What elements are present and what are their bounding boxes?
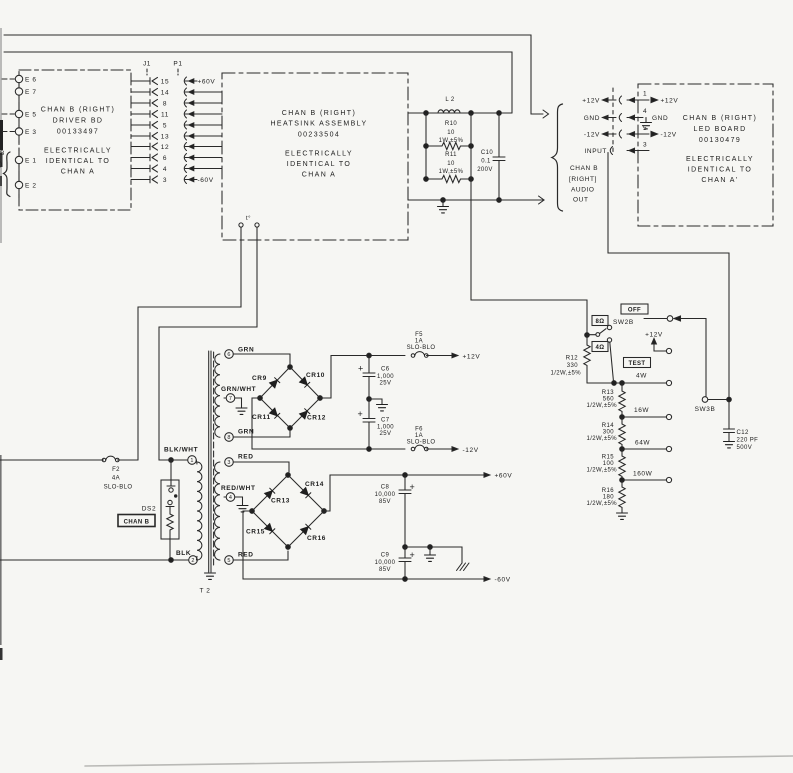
svg-text:14: 14	[161, 89, 169, 96]
svg-text:t°: t°	[246, 216, 251, 222]
svg-text:CR10: CR10	[306, 372, 325, 379]
svg-text:E 6: E 6	[25, 77, 37, 84]
svg-text:L 2: L 2	[445, 97, 455, 103]
svg-text:1/2W,±5%: 1/2W,±5%	[586, 501, 617, 507]
svg-text:4Ω: 4Ω	[596, 345, 605, 351]
connector P1 contact pin 13	[184, 132, 186, 140]
fuse F6	[411, 445, 428, 451]
diode CR10	[300, 377, 310, 387]
label TEST	[624, 358, 651, 368]
svg-text:): )	[0, 161, 3, 168]
terminal E7	[15, 88, 22, 95]
page bottom edge line	[85, 756, 793, 766]
svg-text:RED: RED	[238, 454, 254, 461]
svg-text:ELECTRICALLY: ELECTRICALLY	[686, 156, 754, 163]
wire P1 pin 6 to heatsink	[185, 157, 222, 159]
svg-text:1/2W,±5%: 1/2W,±5%	[586, 468, 617, 474]
wire RED 3 to bridge2 top	[233, 462, 289, 472]
wire bridge2 minus to -60V rail	[243, 511, 484, 579]
switch OFF contact	[644, 318, 667, 320]
svg-text:00133497: 00133497	[57, 129, 99, 136]
svg-text:3: 3	[163, 177, 167, 184]
ground C12	[724, 442, 735, 448]
svg-text:DS2: DS2	[142, 506, 156, 513]
svg-text:F5: F5	[415, 332, 423, 338]
svg-text:330: 330	[567, 363, 578, 369]
svg-text:T 2: T 2	[199, 588, 210, 595]
wire 16W row	[622, 416, 666, 418]
svg-text:560: 560	[603, 397, 614, 403]
capacitor C8	[403, 473, 408, 478]
svg-text:13: 13	[161, 133, 169, 140]
svg-text:85V: 85V	[379, 499, 391, 505]
terminal 5 RED	[225, 556, 234, 565]
ground T2 core	[205, 573, 216, 579]
svg-text:15: 15	[161, 78, 169, 85]
wire J1 pin 6 lead	[131, 157, 150, 159]
connector P1 contact pin 14	[184, 88, 186, 96]
terminal E2	[15, 181, 22, 188]
svg-text:4A: 4A	[112, 476, 120, 482]
wire 4W row	[587, 382, 666, 384]
driver board CHAN B dashed box	[19, 70, 131, 210]
svg-text:IDENTICAL TO: IDENTICAL TO	[46, 158, 111, 165]
wire J1 pin 8 lead	[131, 102, 150, 104]
svg-text:1/2W,±5%: 1/2W,±5%	[586, 436, 617, 442]
brace audio out	[552, 104, 563, 211]
ground C6 C7 midpoint	[369, 399, 382, 405]
wire bridge1 minus to -12V rail	[252, 398, 405, 449]
resistor R14	[619, 417, 625, 449]
cut-off text left margin	[0, 150, 5, 168]
capacitor C9	[404, 547, 406, 558]
wire outer top feed line	[4, 35, 543, 114]
svg-text:SLO-BLO: SLO-BLO	[407, 345, 436, 351]
svg-text:1: 1	[190, 458, 193, 464]
svg-text:1A: 1A	[415, 339, 423, 345]
svg-text:4: 4	[229, 495, 232, 501]
lamp DS2	[161, 480, 179, 539]
node L2 right	[469, 111, 474, 116]
svg-text:100: 100	[603, 461, 614, 467]
node C6 C7 midpoint	[367, 397, 372, 402]
fuse F2	[0, 459, 104, 461]
connector J1 contact pin 13	[149, 133, 151, 140]
connector J1 contact pin 14	[149, 89, 151, 96]
capacitor C6	[367, 353, 372, 358]
svg-text:8: 8	[163, 100, 167, 107]
connector J1 contact pin 15	[149, 78, 151, 85]
net CHAN B RIGHT AUDIO OUT	[569, 165, 598, 204]
svg-text:8Ω: 8Ω	[596, 319, 605, 325]
svg-text:C6: C6	[381, 367, 390, 373]
svg-text:10: 10	[447, 130, 455, 136]
svg-text:R10: R10	[445, 121, 457, 127]
label 8 ohm	[592, 316, 608, 326]
svg-text:CHAN A: CHAN A	[302, 172, 336, 179]
connector J1 contact pin 11	[149, 111, 151, 118]
terminal E5	[15, 110, 22, 117]
svg-text:+12V: +12V	[661, 98, 679, 105]
wire P1 pin 4 to heatsink	[185, 168, 222, 170]
svg-text:25V: 25V	[380, 431, 392, 437]
resistor R10	[426, 142, 471, 149]
svg-text:E 3: E 3	[25, 129, 37, 136]
terminal 8 GRN	[225, 433, 234, 442]
svg-text:IDENTICAL TO: IDENTICAL TO	[688, 167, 753, 174]
resistor R16	[619, 480, 625, 513]
svg-text:1/2W,±5%: 1/2W,±5%	[550, 371, 581, 377]
node audio out - arrow	[539, 196, 545, 204]
svg-text:E 7: E 7	[25, 89, 37, 96]
terminal E3	[15, 128, 22, 135]
ground chassis	[457, 563, 470, 571]
svg-text:CHAN B (RIGHT): CHAN B (RIGHT)	[683, 115, 757, 122]
heatsink assembly dashed box	[222, 73, 408, 240]
transformer T2 core	[208, 351, 210, 572]
wire J1 pin 15 lead	[131, 80, 150, 82]
wire BLK bottom	[0, 559, 189, 561]
svg-text:CHAN B: CHAN B	[124, 520, 150, 526]
label CHAN B plate	[118, 515, 155, 527]
connector P1 label	[173, 61, 182, 68]
brace left margin	[4, 152, 11, 197]
ground audio common	[442, 200, 444, 207]
diode CR14	[301, 488, 311, 498]
svg-text:C10: C10	[481, 150, 493, 156]
terminal 4 RED/WHT	[224, 496, 227, 498]
svg-text:ELECTRICALLY: ELECTRICALLY	[44, 148, 112, 155]
svg-text:SW3B: SW3B	[695, 406, 716, 413]
svg-text:1,000: 1,000	[377, 425, 394, 431]
svg-text:R13: R13	[602, 390, 614, 396]
connector P1 contact pin 11	[184, 110, 186, 118]
wire t° left to F2	[138, 227, 241, 460]
svg-text:4: 4	[643, 108, 647, 115]
terminal E6	[15, 75, 22, 82]
wire 64W row	[622, 448, 666, 450]
svg-text:GRN: GRN	[238, 347, 254, 354]
svg-text:8: 8	[227, 435, 230, 441]
svg-text:CR13: CR13	[271, 498, 290, 505]
svg-text:+60V: +60V	[198, 78, 216, 85]
connector J1 contact pin 3	[149, 176, 151, 183]
connector J1 contact pin 8	[149, 100, 151, 107]
diode CR12	[300, 409, 310, 419]
connector J1 contact pin 5	[149, 122, 151, 129]
svg-text:160W: 160W	[633, 471, 653, 478]
svg-text:E 1: E 1	[25, 158, 37, 165]
svg-text:OFF: OFF	[628, 308, 641, 314]
wire LED INPUT row	[585, 148, 608, 155]
svg-text:1A: 1A	[415, 433, 423, 439]
svg-text:P1: P1	[173, 61, 182, 68]
bridge1 diamond	[260, 367, 320, 428]
ground LED board	[645, 118, 647, 123]
wire SW3B to input line	[708, 399, 729, 401]
svg-text:CR9: CR9	[252, 375, 267, 382]
svg-text:-12V: -12V	[584, 132, 600, 139]
node audio out + arrow	[543, 110, 549, 118]
page edge artifacts left	[0, 28, 3, 660]
svg-text:E 5: E 5	[25, 112, 37, 119]
wire amp output rail top	[408, 112, 512, 114]
svg-text:1/2W,±5%: 1/2W,±5%	[586, 403, 617, 409]
svg-text:F2: F2	[112, 467, 120, 473]
node +60V arrow	[484, 473, 490, 477]
svg-text:R15: R15	[602, 455, 614, 461]
wire J1 pin 11 lead	[131, 113, 150, 115]
node BLK/WHT	[169, 458, 174, 463]
svg-text:J1: J1	[143, 61, 151, 68]
net -12V	[463, 447, 479, 454]
connector LED board boundary dashes	[612, 88, 614, 155]
svg-text:GND: GND	[584, 115, 600, 122]
svg-text:INPUT: INPUT	[585, 148, 608, 155]
svg-text:CR15: CR15	[246, 529, 265, 536]
wire GRN 8 to bridge1 bottom	[233, 431, 290, 437]
terminal 6 GRN	[225, 350, 234, 359]
svg-text:SLO-BLO: SLO-BLO	[104, 485, 133, 491]
svg-text:25V: 25V	[380, 381, 392, 387]
wire terminal strip	[18, 83, 20, 88]
svg-text:5: 5	[227, 558, 230, 564]
wire J1 pin 5 lead	[131, 124, 150, 126]
svg-text:0.1: 0.1	[481, 159, 491, 165]
wire P1 pin 12 to heatsink	[185, 146, 222, 148]
svg-text:AUDIO: AUDIO	[571, 187, 595, 194]
svg-text:+12V: +12V	[645, 332, 663, 339]
resistor R15	[619, 449, 625, 480]
svg-text:+: +	[410, 482, 415, 492]
wire RED 5 to bridge2 bottom	[233, 551, 288, 560]
wire J1 pin 13 lead	[131, 135, 150, 137]
ground power supply center	[429, 547, 431, 555]
ground terminal 4	[235, 497, 243, 506]
svg-text:R12: R12	[566, 356, 578, 362]
svg-text:5: 5	[163, 122, 167, 129]
connector P1 contact pin 8	[184, 99, 186, 107]
switch SW3B	[702, 397, 708, 403]
node ground tap	[441, 198, 446, 203]
svg-text:1,000: 1,000	[377, 374, 394, 380]
svg-text:-12V: -12V	[661, 132, 677, 139]
svg-text:TEST: TEST	[629, 361, 646, 367]
transformer T2 secondary upper	[215, 354, 220, 437]
wire R10 R11 left riser	[425, 113, 427, 179]
svg-text:R11: R11	[445, 152, 457, 158]
svg-text:500V: 500V	[737, 445, 753, 451]
capacitor C10	[497, 111, 502, 116]
diode CR16	[301, 524, 311, 534]
svg-text:SLO-BLO: SLO-BLO	[407, 440, 436, 446]
wire t° right to BLK/WHT	[159, 227, 257, 460]
connector P1 contact pin 5	[184, 121, 186, 129]
terminal 7 GRN/WHT	[224, 397, 227, 399]
terminal E1	[15, 156, 22, 163]
wire GRN 6 to bridge1 top	[233, 354, 290, 364]
svg-text:220 PF: 220 PF	[737, 438, 759, 444]
svg-text:CR16: CR16	[307, 535, 326, 542]
wire P1 pin 11 to heatsink	[185, 113, 222, 115]
wire speaker line to SW2B	[471, 113, 587, 335]
svg-text:CR11: CR11	[252, 414, 271, 421]
resistor R12	[584, 335, 590, 383]
svg-text:C12: C12	[737, 430, 749, 436]
svg-text:F6: F6	[415, 427, 423, 433]
node -60V arrow	[484, 577, 490, 581]
svg-text:+: +	[410, 550, 415, 560]
net +12V	[463, 354, 481, 361]
wire inner top feed line	[4, 52, 512, 113]
svg-text:10,000: 10,000	[375, 560, 396, 566]
connector P1 contact pin 3	[184, 176, 186, 184]
svg-text:180: 180	[603, 495, 614, 501]
svg-text:CR12: CR12	[307, 415, 326, 422]
wire C8 C9 midpoint grounds	[405, 547, 462, 563]
svg-text:R14: R14	[602, 423, 614, 429]
label OFF	[621, 304, 648, 314]
bridge2 diamond	[252, 475, 324, 547]
svg-text:GRN/WHT: GRN/WHT	[221, 386, 256, 393]
switch test +12V contact	[666, 348, 671, 353]
diode CR11	[270, 408, 280, 418]
terminal 3 RED	[225, 458, 234, 467]
svg-text:CHAN A: CHAN A	[61, 169, 95, 176]
svg-text:2: 2	[191, 558, 194, 564]
svg-text:+60V: +60V	[495, 473, 513, 480]
connector P1 contact pin 12	[184, 143, 186, 151]
svg-text:16W: 16W	[634, 407, 649, 414]
wire P1 pin 13 to heatsink	[185, 135, 222, 137]
svg-text:C7: C7	[381, 418, 390, 424]
svg-text:RED/WHT: RED/WHT	[221, 485, 256, 492]
resistor R11	[426, 175, 471, 182]
svg-text:OUT: OUT	[573, 197, 589, 204]
wire P1 pin 5 to heatsink	[185, 124, 222, 126]
svg-text:10: 10	[447, 161, 455, 167]
capacitor C7	[368, 399, 370, 418]
wire LED -12V row	[584, 132, 600, 139]
ground R16	[617, 513, 628, 519]
svg-text:RED: RED	[238, 552, 254, 559]
svg-text:B: B	[0, 150, 5, 157]
svg-text:6: 6	[163, 155, 167, 162]
connector J1 contact pin 12	[149, 143, 151, 150]
thermal breaker t° terminals	[239, 223, 243, 227]
diode CR15	[265, 524, 275, 534]
svg-text:-60V: -60V	[198, 177, 214, 184]
svg-text:HEATSINK ASSEMBLY: HEATSINK ASSEMBLY	[270, 121, 367, 128]
svg-text:+: +	[358, 364, 363, 374]
wire J1 pin 3 lead	[131, 179, 150, 181]
svg-text:E 2: E 2	[25, 183, 37, 190]
svg-text:+12V: +12V	[582, 98, 600, 105]
connector J1 contact pin 6	[149, 154, 151, 161]
svg-text:-12V: -12V	[463, 447, 479, 454]
svg-text:3: 3	[643, 142, 647, 149]
connector P1 contact pin 4	[184, 165, 186, 173]
wire bridge2 plus to +60V rail	[324, 475, 484, 511]
svg-text:DRIVER BD: DRIVER BD	[53, 118, 104, 125]
wire J1 pin 4 lead	[131, 168, 150, 170]
node C8 C9 midpoint	[403, 545, 408, 550]
connector J1 label	[143, 61, 151, 68]
svg-text:1W,±5%: 1W,±5%	[439, 169, 464, 175]
wire LED +12V row	[582, 98, 600, 105]
connector J1 contact pin 4	[149, 165, 151, 172]
transformer T2 primary	[188, 456, 197, 465]
svg-text:IDENTICAL TO: IDENTICAL TO	[287, 161, 352, 168]
fuse F5	[411, 352, 428, 358]
svg-text:+: +	[358, 409, 363, 419]
svg-text:64W: 64W	[635, 440, 650, 447]
svg-text:3: 3	[227, 460, 230, 466]
wire OFF to SW3B	[681, 319, 706, 397]
transformer T2 secondary lower	[215, 462, 220, 560]
label 4 ohm	[592, 342, 608, 352]
ground terminal 7	[235, 398, 242, 408]
svg-text:10,000: 10,000	[375, 492, 396, 498]
svg-text:4W: 4W	[636, 373, 647, 380]
svg-text:CHAN A': CHAN A'	[701, 177, 738, 184]
connector P1 contact pin 6	[184, 154, 186, 162]
svg-text:BLK: BLK	[176, 550, 191, 557]
diode CR9	[270, 378, 280, 388]
wire LED GND row	[584, 115, 600, 122]
svg-text:85V: 85V	[379, 567, 391, 573]
svg-text:11: 11	[161, 111, 169, 118]
svg-text:ELECTRICALLY: ELECTRICALLY	[285, 151, 353, 158]
node L2 left	[424, 111, 429, 116]
wire 160W row	[622, 479, 666, 481]
svg-text:1W,±5%: 1W,±5%	[439, 138, 464, 144]
svg-text:CHAN B (RIGHT): CHAN B (RIGHT)	[41, 107, 115, 114]
wire bridge1 plus to +12V rail	[320, 356, 405, 399]
capacitor C12	[728, 400, 730, 429]
svg-text:R16: R16	[602, 488, 614, 494]
net -60V	[198, 177, 214, 184]
svg-text:LED BOARD: LED BOARD	[693, 126, 746, 133]
wire J1 pin 14 lead	[131, 91, 150, 93]
svg-text:CHAN B: CHAN B	[570, 165, 598, 172]
svg-text:SW2B: SW2B	[613, 319, 634, 326]
wire INPUT to SW3B	[608, 153, 729, 397]
svg-text:7: 7	[229, 396, 232, 402]
wire 4ohm contact to 4W node	[610, 342, 614, 383]
wire amp output rail bottom	[408, 199, 544, 201]
svg-text:[RIGHT]: [RIGHT]	[569, 176, 597, 183]
svg-text:BLK/WHT: BLK/WHT	[164, 447, 198, 454]
resistor R13	[619, 383, 625, 417]
svg-text:+12V: +12V	[463, 354, 481, 361]
svg-text:C9: C9	[381, 553, 390, 559]
LED board dashed box	[638, 84, 773, 226]
diode CR13	[265, 488, 275, 498]
connector P1 contact pin 15	[184, 77, 186, 85]
svg-text:300: 300	[603, 430, 614, 436]
svg-text:12: 12	[161, 144, 169, 151]
svg-text:C8: C8	[381, 485, 390, 491]
svg-text:00233504: 00233504	[298, 132, 340, 139]
svg-text:1: 1	[643, 91, 647, 98]
net +60V	[198, 78, 216, 85]
svg-text:4: 4	[163, 166, 167, 173]
svg-text:6: 6	[227, 352, 230, 358]
switch SW2B	[585, 333, 590, 338]
inductor L2	[438, 110, 460, 113]
svg-text:CHAN B (RIGHT): CHAN B (RIGHT)	[282, 110, 356, 117]
